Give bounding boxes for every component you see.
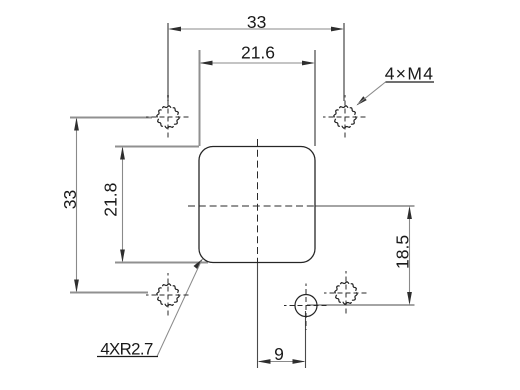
svg-text:9: 9 <box>274 344 284 364</box>
svg-text:21.8: 21.8 <box>101 183 121 217</box>
svg-text:21.6: 21.6 <box>241 43 275 63</box>
svg-text:33: 33 <box>60 190 80 209</box>
svg-text:33: 33 <box>247 12 266 32</box>
svg-text:4XR2.7: 4XR2.7 <box>100 340 153 359</box>
svg-text:18.5: 18.5 <box>393 235 413 269</box>
svg-text:4×M4: 4×M4 <box>385 64 434 84</box>
